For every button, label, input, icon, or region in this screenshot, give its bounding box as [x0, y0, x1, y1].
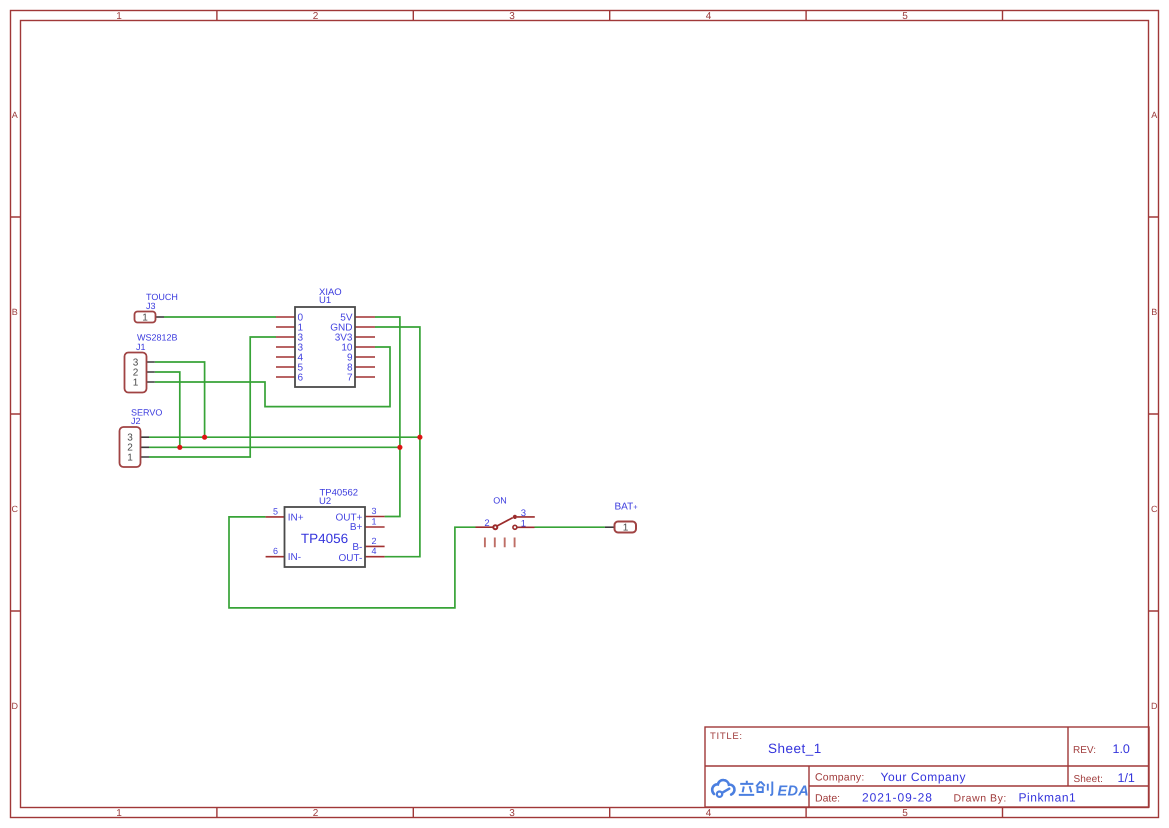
- switch pin 2 contact: [493, 525, 497, 529]
- svg-text:2: 2: [484, 518, 489, 529]
- svg-text:3: 3: [509, 11, 515, 22]
- column numbers top: [116, 11, 908, 22]
- svg-text:C: C: [1151, 504, 1158, 514]
- logo cloud icon: [712, 780, 734, 797]
- svg-text:4: 4: [372, 546, 377, 556]
- XIAO U1 right pin stubs: [355, 317, 375, 377]
- column tick marks bottom: [217, 808, 1003, 818]
- connector BAT+ body: [615, 522, 637, 533]
- svg-text:Sheet_1: Sheet_1: [768, 741, 822, 756]
- row letters right: [1151, 110, 1158, 711]
- svg-text:Drawn By:: Drawn By:: [954, 793, 1007, 805]
- svg-text:7: 7: [347, 373, 353, 384]
- wire J2.2 row: [149, 446, 400, 448]
- wire J1.3 down to servo row: [155, 362, 205, 437]
- svg-text:ON: ON: [493, 496, 507, 506]
- svg-text:U2: U2: [319, 496, 331, 507]
- logo glyph li: [739, 781, 754, 795]
- XIAO U1 left pin names: [298, 313, 304, 384]
- svg-text:WS2812B: WS2812B: [137, 333, 178, 343]
- svg-text:2: 2: [372, 536, 377, 546]
- svg-text:4: 4: [706, 11, 712, 22]
- svg-text:J3: J3: [146, 301, 156, 311]
- wire SW1 pin 2 to U2 IN+: [229, 517, 476, 608]
- junction 5V/J2.2: [397, 445, 402, 450]
- column tick marks top: [217, 11, 1003, 21]
- connector J3 body: [135, 312, 156, 323]
- svg-text:1: 1: [142, 313, 148, 324]
- connector BAT+ pin stub: [605, 526, 615, 528]
- svg-text:OUT-: OUT-: [339, 553, 363, 564]
- connector J2 body: [120, 427, 141, 467]
- svg-text:2: 2: [313, 808, 319, 819]
- svg-text:Date:: Date:: [815, 793, 840, 805]
- svg-text:1: 1: [116, 808, 122, 819]
- svg-text:1: 1: [127, 453, 133, 464]
- svg-text:J1: J1: [136, 342, 146, 352]
- IC U2 pin names: [288, 512, 363, 564]
- svg-text:IN+: IN+: [288, 512, 304, 523]
- svg-text:6: 6: [298, 373, 304, 384]
- junction J1.2/J2.2: [177, 445, 182, 450]
- switch lever: [497, 518, 513, 526]
- switch pin 1 contact: [513, 525, 517, 529]
- svg-text:3: 3: [372, 506, 377, 516]
- svg-text:1: 1: [116, 11, 122, 22]
- XIAO U1 left pin stubs: [276, 317, 295, 377]
- wire U1 GND to U2 OUT-: [375, 327, 420, 557]
- connector J1 body: [125, 353, 147, 393]
- switch lever pivot dot: [513, 515, 517, 519]
- svg-text:D: D: [1151, 701, 1158, 711]
- XIAO U1 right pin names: [330, 313, 353, 384]
- svg-text:3: 3: [509, 808, 515, 819]
- wire SW1 pin 1 to BAT+: [535, 526, 605, 528]
- connector J2 pin numbers: [127, 433, 133, 464]
- wire J1.1 to U1 pin 10: [155, 347, 390, 407]
- IC U2 left pin stubs: [266, 517, 285, 557]
- junction J1.3/J2.3: [202, 435, 207, 440]
- svg-text:B: B: [12, 307, 18, 317]
- switch pin numbers: [484, 508, 526, 529]
- connector J1 pin stubs: [147, 362, 155, 382]
- svg-text:Company:: Company:: [815, 772, 864, 784]
- svg-text:A: A: [12, 110, 18, 120]
- svg-text:1.0: 1.0: [1113, 742, 1130, 756]
- svg-text:J2: J2: [131, 416, 141, 426]
- svg-text:5: 5: [902, 11, 908, 22]
- XIAO U1 body: [295, 307, 355, 387]
- wire U1 pin 3 to J2.1: [149, 337, 276, 457]
- svg-text:A: A: [1151, 110, 1157, 120]
- title block dividers: [705, 727, 1149, 807]
- svg-text:1: 1: [133, 378, 139, 389]
- svg-text:1: 1: [372, 517, 377, 527]
- svg-text:Sheet:: Sheet:: [1074, 774, 1104, 785]
- switch pin 3 stub: [517, 516, 535, 518]
- svg-text:2: 2: [313, 11, 319, 22]
- wire J1.2 down to servo row: [155, 372, 180, 447]
- connector J2 pin stubs: [141, 437, 150, 457]
- svg-text:Pinkman1: Pinkman1: [1019, 791, 1077, 805]
- row tick marks left: [11, 217, 21, 611]
- svg-text:EDA: EDA: [778, 784, 810, 800]
- svg-text:IN-: IN-: [288, 552, 301, 563]
- svg-text:1: 1: [623, 523, 629, 534]
- row letters left: [12, 110, 19, 711]
- svg-text:REV:: REV:: [1073, 745, 1096, 756]
- svg-text:5: 5: [273, 507, 278, 517]
- svg-text:1/1: 1/1: [1118, 771, 1135, 785]
- IC U2 body: [285, 507, 366, 567]
- svg-text:Your Company: Your Company: [881, 770, 967, 784]
- logo glyph chuang: [756, 782, 772, 796]
- svg-text:4: 4: [706, 808, 712, 819]
- row tick marks right: [1149, 217, 1159, 611]
- IC U2 right pin stubs: [365, 517, 385, 557]
- junction GND/J2.3: [417, 435, 422, 440]
- svg-text:U1: U1: [319, 295, 331, 306]
- svg-text:B+: B+: [350, 522, 363, 533]
- svg-text:C: C: [12, 504, 19, 514]
- switch pin 2 stub: [476, 526, 494, 528]
- svg-text:B: B: [1151, 307, 1157, 317]
- svg-text:BAT+: BAT+: [615, 502, 639, 513]
- svg-text:1: 1: [521, 518, 526, 529]
- switch pin 1 stub: [517, 526, 535, 528]
- wire J2.3 row: [149, 436, 420, 438]
- svg-text:TITLE:: TITLE:: [710, 731, 743, 742]
- wire J3.1 to U1 pin 0: [164, 316, 276, 318]
- svg-text:TP4056: TP4056: [301, 531, 348, 546]
- svg-text:2021-09-28: 2021-09-28: [862, 791, 933, 805]
- IC U2 pin numbers: [273, 506, 377, 556]
- connector J3 pin stub: [156, 316, 165, 318]
- svg-text:D: D: [12, 701, 19, 711]
- column numbers bottom: [116, 808, 908, 819]
- svg-text:B-: B-: [352, 542, 362, 553]
- svg-text:5: 5: [902, 808, 908, 819]
- wire U1 5V to U2 OUT+: [375, 317, 400, 517]
- switch housing dashes: [485, 538, 515, 548]
- title block frame: [705, 727, 1149, 807]
- svg-text:6: 6: [273, 546, 278, 556]
- connector J1 pin numbers: [133, 358, 139, 389]
